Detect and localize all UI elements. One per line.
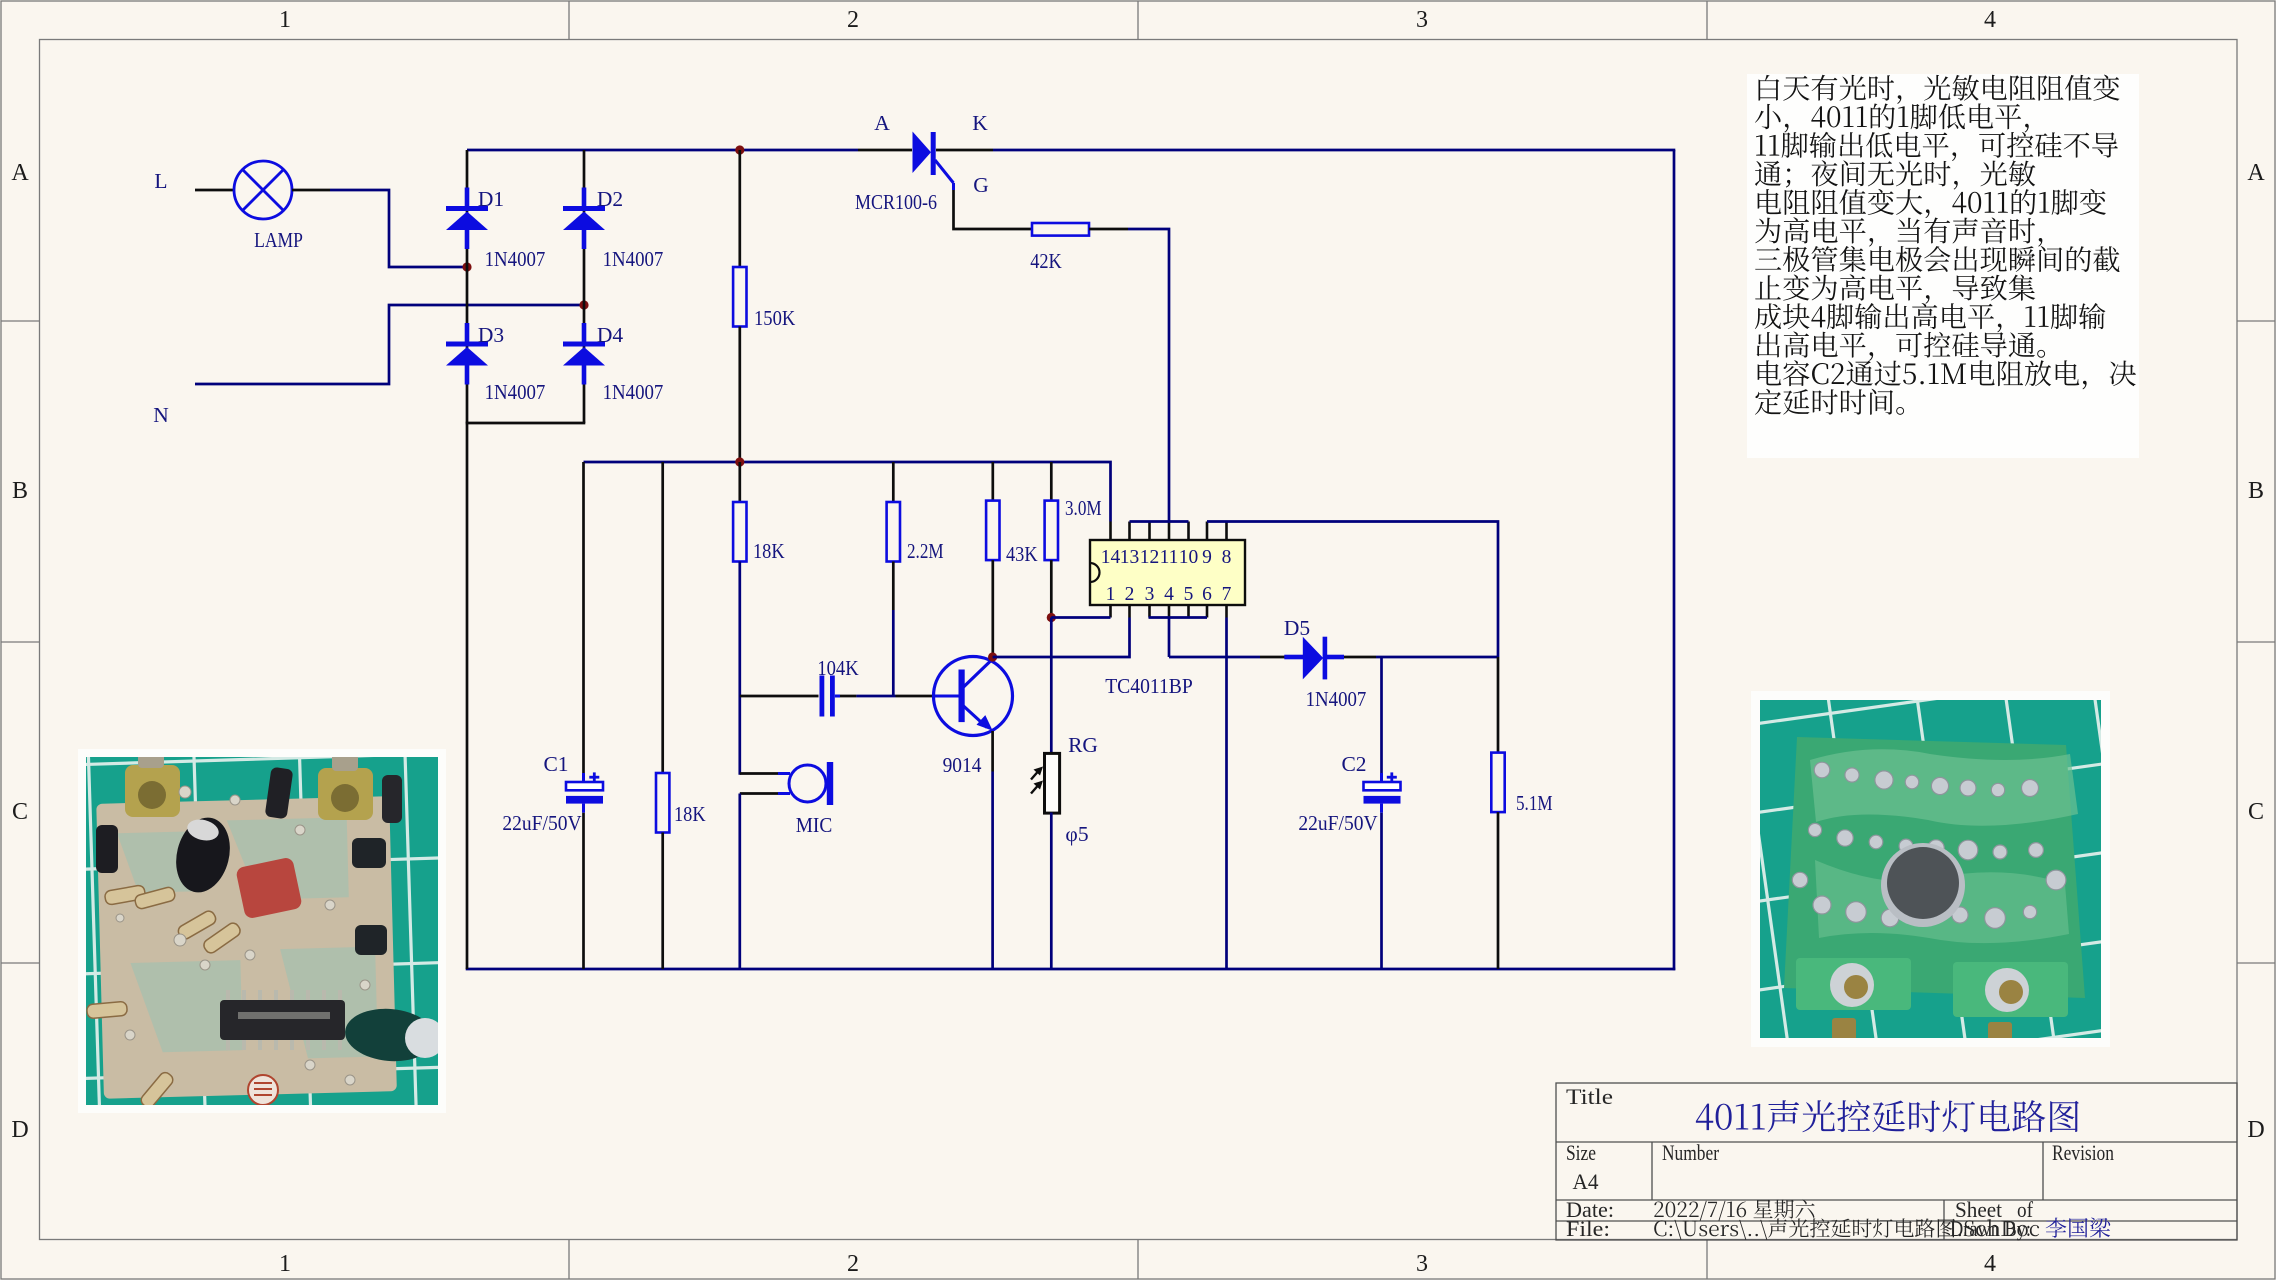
svg-text:9: 9 (1202, 547, 1212, 568)
svg-text:Size: Size (1566, 1140, 1596, 1165)
svg-text:1N4007: 1N4007 (603, 247, 664, 271)
svg-text:File:: File: (1566, 1216, 1610, 1241)
wire: 18K-2 bottom (661, 833, 664, 970)
wire: lamp to bridge (292, 189, 330, 192)
thyristor MCR100-6 (913, 132, 936, 176)
wire: 104K right lead (835, 695, 840, 698)
IC pin stubs bottom (1111, 605, 1227, 618)
svg-text:D: D (11, 1117, 28, 1143)
svg-text:A: A (874, 111, 890, 135)
wire: thyristor anode lead (858, 149, 912, 152)
svg-text:10: 10 (1179, 547, 1199, 568)
date value (1654, 1200, 1814, 1221)
wire: mic lower lead (778, 792, 790, 795)
annotation text backing (1747, 74, 2139, 458)
IC U1 TC4011BP body (1090, 540, 1245, 605)
svg-text:3: 3 (1416, 7, 1428, 33)
wire: 3.0M bottom lead (1050, 560, 1053, 617)
sheet title (1696, 1100, 2079, 1132)
svg-text:12: 12 (1140, 547, 1160, 568)
annotation paragraph (1758, 75, 2119, 104)
svg-text:1N4007: 1N4007 (485, 380, 546, 404)
svg-text:13: 13 (1120, 547, 1140, 568)
wire: 150K top lead (738, 150, 741, 267)
svg-text:4: 4 (1984, 1251, 1996, 1277)
transistor Q 9014 (934, 657, 1013, 736)
wire: C1 top (582, 462, 585, 773)
wire: 43K bottom lead (991, 560, 994, 657)
wire: left bridge drop x467 (466, 422, 469, 969)
svg-text:D: D (2247, 1117, 2264, 1143)
title block (1556, 1083, 2237, 1240)
wire: 2.2M bottom (892, 562, 895, 611)
svg-text:Number: Number (1662, 1140, 1720, 1165)
wire: 42K to pin11 (1128, 229, 1169, 522)
svg-text:9014: 9014 (943, 753, 982, 777)
wire: pins 3-6 tie (1149, 616, 1208, 619)
svg-text:C1: C1 (543, 752, 568, 776)
svg-text:5: 5 (1184, 584, 1194, 605)
svg-text:6: 6 (1202, 584, 1212, 605)
wire: 150K bottom lead (738, 327, 741, 463)
wire: mic upper lead (740, 772, 778, 775)
junction pin1 node (1047, 613, 1056, 622)
wire: pins 9-8 to right column (1207, 522, 1498, 658)
capacitor C1 (566, 782, 603, 790)
wire: 5.1M top lead (1497, 657, 1500, 753)
svg-text:C: C (2248, 799, 2264, 825)
svg-text:MCR100-6: MCR100-6 (855, 190, 937, 214)
svg-text:RG: RG (1068, 733, 1098, 757)
svg-text:D2: D2 (597, 187, 623, 211)
svg-text:LAMP: LAMP (254, 228, 303, 252)
svg-text:4: 4 (1984, 7, 1996, 33)
svg-text:22uF/50V: 22uF/50V (1298, 811, 1378, 835)
resistor 2.2M (887, 502, 900, 562)
svg-text:D1: D1 (478, 187, 504, 211)
wire: 104K left lead (740, 695, 819, 698)
junction at 150K top (735, 145, 744, 154)
resistor 150K (733, 267, 746, 327)
svg-text:G: G (973, 173, 989, 197)
svg-text:43K: 43K (1006, 542, 1038, 566)
wire: thyristor cathode lead (936, 149, 993, 152)
svg-text:Title: Title (1566, 1084, 1613, 1109)
svg-text:B: B (2248, 478, 2264, 504)
wire: 18K-2 top (661, 462, 664, 773)
svg-text:3.0M: 3.0M (1065, 496, 1102, 520)
svg-text:5.1M: 5.1M (1516, 791, 1553, 815)
svg-text:Drawn By:: Drawn By: (1950, 1216, 2031, 1241)
svg-text:18K: 18K (753, 539, 785, 563)
svg-text:MIC: MIC (796, 813, 833, 837)
wire: D5 anode lead (1260, 656, 1303, 659)
junction collector node (988, 652, 997, 661)
drawn by (2046, 1218, 2110, 1238)
wire: collector to pin2 (993, 618, 1130, 658)
resistor 43K (986, 501, 999, 560)
diode D2 (563, 188, 605, 250)
svg-text:1N4007: 1N4007 (1306, 687, 1367, 711)
diode D4 (563, 323, 605, 385)
diode D3 (446, 323, 488, 385)
svg-text:22uF/50V: 22uF/50V (502, 811, 582, 835)
resistor 42K (1032, 223, 1089, 236)
svg-text:3: 3 (1145, 584, 1155, 605)
svg-text:1: 1 (1106, 584, 1116, 605)
svg-text:2: 2 (1125, 584, 1135, 605)
svg-text:8: 8 (1222, 547, 1232, 568)
wire: emitter to ground (991, 731, 994, 772)
microphone MIC (789, 765, 826, 802)
wire: RG bottom (1050, 813, 1053, 970)
lamp LAMP (234, 161, 292, 219)
svg-text:K: K (972, 111, 988, 135)
resistor 5.1M (1491, 753, 1504, 813)
photo right: PCB solder side on cutting mat (1671, 605, 2240, 1170)
wire: N to bridge (195, 305, 584, 384)
wire: pin7 ground drop (1225, 618, 1228, 970)
svg-text:104K: 104K (817, 656, 859, 680)
svg-text:3: 3 (1416, 1251, 1428, 1277)
svg-text:TC4011BP: TC4011BP (1105, 674, 1193, 698)
resistor 18K (lower) (656, 773, 669, 833)
wire: 3.0M top lead (1050, 462, 1053, 501)
wire: top bus A-line y150 (467, 149, 858, 152)
wire: 2.2M top lead (892, 462, 895, 502)
junction bridge left node (462, 262, 471, 271)
svg-text:L: L (154, 169, 167, 193)
svg-text:φ5: φ5 (1065, 822, 1088, 846)
svg-text:D4: D4 (597, 323, 624, 347)
svg-text:D3: D3 (478, 323, 504, 347)
svg-text:Revision: Revision (2052, 1140, 2114, 1165)
wire: D5 to 5.1M column (1376, 656, 1498, 659)
wire: 18K-1 top lead (738, 462, 741, 502)
svg-text:1: 1 (279, 7, 291, 33)
wire: base wire (856, 695, 895, 698)
resistor 3.0M (1045, 501, 1058, 560)
svg-text:C2: C2 (1341, 752, 1366, 776)
svg-text:B: B (12, 478, 28, 504)
wire: pin1 link (1051, 616, 1110, 619)
svg-text:1: 1 (279, 1251, 291, 1277)
junction at mid bus x739.8 (735, 457, 744, 466)
wire: 18K-1 to mic (738, 562, 741, 775)
svg-text:C: C (12, 799, 28, 825)
svg-text:D5: D5 (1284, 616, 1310, 640)
photoresistor RG (1045, 753, 1060, 813)
wire: bottom ground bus y969 (466, 968, 1676, 971)
wire: pin4 to D5 (1169, 656, 1260, 659)
photo left: PCB component side on cutting mat (52, 718, 629, 1184)
wire: C1 bottom (582, 804, 585, 813)
wire: D2/D4 column (583, 150, 586, 423)
file value (1654, 1218, 2039, 1239)
svg-text:A4: A4 (1573, 1169, 1599, 1194)
wire: C2 top (1380, 657, 1383, 773)
svg-text:11: 11 (1160, 547, 1179, 568)
wire: pins 13-11 tie (1130, 520, 1189, 523)
svg-text:7: 7 (1222, 584, 1232, 605)
wire: D1/D3 column (466, 150, 469, 423)
svg-text:2: 2 (847, 1251, 859, 1277)
diode D5 (1284, 637, 1344, 680)
svg-text:2.2M: 2.2M (907, 539, 944, 563)
svg-text:18K: 18K (674, 802, 706, 826)
wire: pin4 drop (1168, 618, 1171, 658)
svg-text:N: N (153, 403, 169, 427)
svg-text:42K: 42K (1030, 249, 1062, 273)
capacitor 104K (820, 676, 825, 717)
svg-text:4: 4 (1164, 584, 1174, 605)
wire: gate to 42K (954, 190, 1033, 229)
wire: bridge bottom link (466, 422, 586, 425)
junction bridge right node (579, 300, 588, 309)
wire: D5 cathode lead (1344, 656, 1376, 659)
wire: 5.1M bottom lead (1497, 812, 1500, 969)
svg-text:A: A (11, 160, 29, 186)
wire: mic to ground (738, 794, 741, 970)
wire: 43K top lead (991, 462, 994, 501)
wire: mid bus y462 (584, 462, 1111, 522)
svg-text:2: 2 (847, 7, 859, 33)
resistor 18K (upper) (733, 502, 746, 562)
wire: C2 bottom (1380, 804, 1383, 813)
svg-text:A: A (2247, 160, 2265, 186)
svg-text:14: 14 (1101, 547, 1121, 568)
IC pin stubs top (1111, 522, 1227, 541)
wire: L lead (195, 189, 234, 192)
capacitor C2 (1364, 782, 1401, 790)
svg-text:1N4007: 1N4007 (603, 380, 664, 404)
svg-text:1N4007: 1N4007 (485, 247, 546, 271)
diode D1 (446, 188, 488, 250)
svg-text:150K: 150K (754, 306, 796, 330)
wire: pin1 node to RG (1050, 618, 1053, 754)
wire: right edge vertical (1673, 150, 1676, 970)
wire: 42K right lead (1089, 228, 1128, 231)
